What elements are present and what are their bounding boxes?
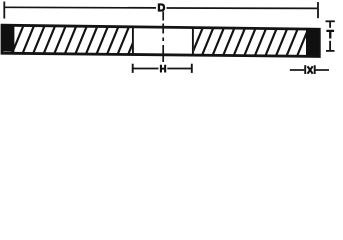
wheel cross-section outline	[2, 25, 319, 56]
X dimension line	[290, 65, 329, 74]
label H	[160, 65, 166, 73]
hole right edge	[192, 27, 194, 55]
abrasive block left	[1, 25, 14, 52]
H dimension line	[133, 64, 192, 73]
hole left edge	[132, 27, 134, 55]
hatch left region	[0, 23, 343, 59]
label T	[326, 30, 334, 39]
hatch right region	[0, 23, 343, 59]
label D	[158, 3, 165, 11]
D dimension line	[4, 2, 318, 19]
abrasive block right	[306, 28, 319, 55]
T dimension marks	[326, 21, 335, 51]
label X	[308, 66, 313, 73]
centerline	[162, 12, 164, 63]
